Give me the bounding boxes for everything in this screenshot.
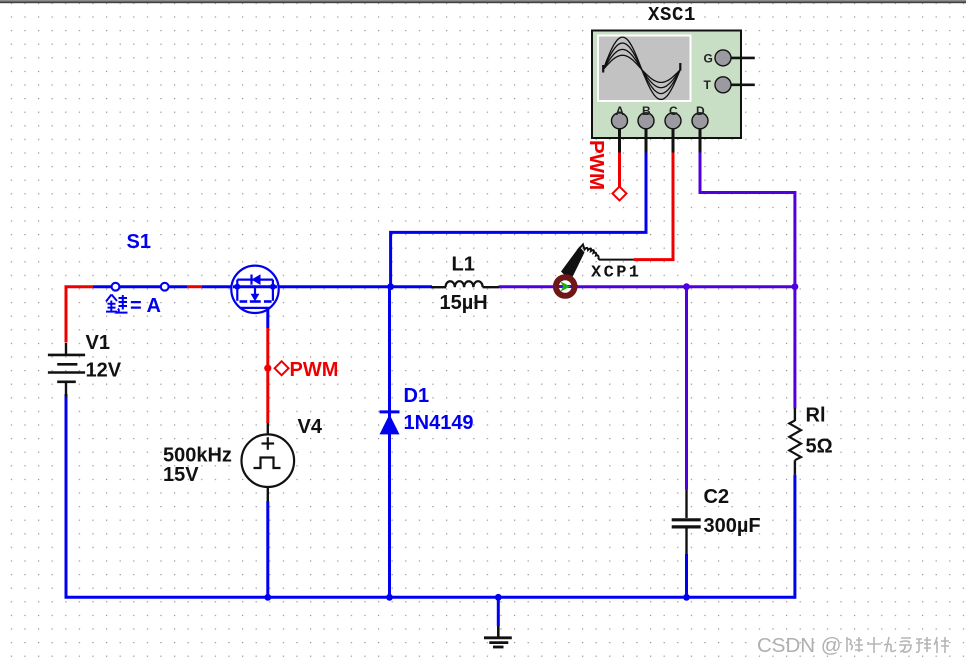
watermark CSDN — [757, 634, 842, 657]
svg-text:Rl: Rl — [806, 405, 826, 427]
oscilloscope terminal B — [638, 104, 654, 153]
wire: ground branch blue from bottom rail — [497, 597, 500, 626]
svg-text:12V: 12V — [86, 360, 122, 382]
oscilloscope XSC1 body — [592, 31, 741, 139]
label D1 — [404, 385, 430, 407]
connector PWM diamond (scope A) — [612, 186, 626, 200]
wire: top rail blue MOSFET-to-L1 — [277, 285, 432, 288]
oscilloscope waveform trace 4 — [603, 55, 680, 82]
svg-text:300µF: 300µF — [704, 515, 761, 537]
svg-text:C: C — [669, 104, 678, 118]
label V1 — [86, 332, 110, 354]
top window border — [0, 0, 966, 1]
node: junction dot top rail at D1/B branch — [387, 283, 394, 290]
svg-text:A: A — [616, 104, 625, 118]
svg-text:5Ω: 5Ω — [806, 436, 833, 458]
oscilloscope terminal T with lead — [704, 77, 755, 93]
wire: Rl lower blue to bottom rail corner — [793, 475, 796, 599]
svg-text:= A: = A — [130, 295, 161, 317]
svg-text:15µH: 15µH — [440, 292, 488, 314]
svg-text:XCP1: XCP1 — [591, 264, 641, 283]
label 5 ohm — [806, 436, 833, 458]
node: junction dot bottom rail at D1 — [386, 594, 393, 601]
svg-text:15V: 15V — [163, 464, 199, 486]
MOSFET body diode top line — [237, 279, 273, 281]
resistor Rl zigzag — [789, 408, 801, 475]
oscilloscope waveform trace 3 — [603, 49, 680, 87]
label 15uH — [440, 292, 488, 314]
connector PWM diamond (gate node) — [275, 361, 289, 375]
battery V1 — [48, 343, 85, 397]
diode D1 — [380, 412, 400, 435]
svg-text:D: D — [696, 104, 705, 118]
wire: left rail red segment from V1 top up to top rail — [66, 287, 93, 343]
label PWM at gate node — [290, 359, 339, 381]
node: junction dot bottom rail at ground — [495, 594, 502, 601]
node: junction dot top rail at Rl — [792, 283, 799, 290]
wire: C2 branch purple from top rail down — [685, 287, 688, 489]
svg-text:C2: C2 — [704, 486, 730, 508]
inductor L1 — [431, 281, 499, 287]
svg-text:PWM: PWM — [290, 359, 339, 381]
oscilloscope waveform trace 1 — [603, 37, 680, 99]
wire: V4 branch - MOSFET gate blue then red through PWM node to V4 — [266, 308, 269, 597]
svg-text:1N4149: 1N4149 — [404, 412, 474, 434]
wire: scope-B net blue from junction up and right to scope B stub — [391, 152, 646, 287]
svg-text:B: B — [642, 104, 651, 118]
svg-text:T: T — [704, 78, 712, 92]
label S1 — [127, 231, 151, 253]
label = A — [130, 295, 161, 317]
MOSFET Q1 circle — [231, 266, 278, 313]
node: junction dot bottom rail at C2 — [683, 594, 690, 601]
svg-text:V1: V1 — [86, 332, 110, 354]
switch S1 pole circles and bar — [112, 283, 169, 291]
wire: C2 lower blue to bottom rail — [685, 554, 688, 597]
MOSFET channel stubs — [240, 300, 248, 303]
svg-text:PWM: PWM — [585, 140, 608, 190]
wire: D1 branch blue vertical down to bottom rail — [388, 287, 391, 598]
label 300uF — [704, 515, 761, 537]
label 15V — [163, 464, 199, 486]
node: junction dot bottom rail at V4 — [264, 594, 271, 601]
oscilloscope terminal G with lead — [704, 50, 755, 66]
MOSFET gate bar — [240, 307, 271, 309]
node: PWM junction dot on gate wire — [264, 365, 271, 372]
MOSFET internal: drain/source verticals with dots — [234, 284, 240, 290]
square-wave source V4 — [241, 423, 294, 501]
wire: scope-A red stub down to PWM diamond — [618, 152, 621, 187]
svg-text:D1: D1 — [404, 385, 430, 407]
label C2 — [704, 486, 730, 508]
wire: top rail blue switch-to-MOSFET with red segment — [169, 285, 234, 288]
svg-text:G: G — [704, 51, 713, 65]
wire: scope-D net purple down right down to Rl — [700, 152, 795, 409]
label V4 — [298, 416, 323, 438]
oscilloscope terminal C — [665, 104, 681, 153]
wire: scope-C red down and left to probe — [634, 152, 673, 260]
oscilloscope terminal D — [692, 104, 708, 153]
watermark Chinese glyphs approximation — [847, 637, 949, 653]
label Rl — [806, 405, 826, 427]
MOSFET middle arrow down — [254, 287, 256, 296]
oscilloscope waveform trace 2 — [603, 43, 680, 94]
node: junction dot top rail at C2 branch — [683, 283, 690, 290]
label key = A (Chinese jian glyph approximation) — [106, 295, 128, 313]
oscilloscope terminal A (pin stub + circle + label) — [612, 104, 628, 153]
svg-text:L1: L1 — [452, 254, 475, 276]
svg-text:S1: S1 — [127, 231, 151, 253]
wire: top rail blue V1-to-switch — [93, 285, 112, 288]
label 12V — [86, 360, 122, 382]
capacitor C2 — [672, 489, 701, 554]
svg-text:CSDN @: CSDN @ — [757, 634, 842, 657]
svg-text:V4: V4 — [298, 416, 323, 438]
current probe XCP1 — [553, 245, 634, 299]
ground symbol — [484, 626, 512, 647]
oscilloscope waveform end ticks — [603, 63, 680, 73]
label 1N4149 — [404, 412, 474, 434]
label XSC1 — [648, 4, 696, 26]
label PWM vertical near scope A — [585, 140, 608, 190]
svg-text:XSC1: XSC1 — [648, 4, 696, 26]
label 500kHz — [163, 445, 232, 467]
label L1 — [452, 254, 475, 276]
label XCP1 — [591, 264, 641, 283]
wire: top rail purple L1-to-right — [499, 285, 795, 288]
wire: bottom ground rail blue — [66, 394, 795, 597]
